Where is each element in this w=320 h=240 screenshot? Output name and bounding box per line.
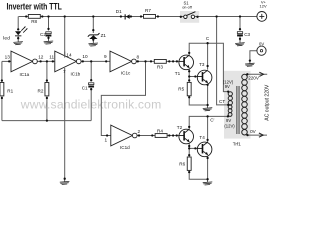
svg-text:R1: R1 — [7, 89, 13, 94]
wire R5 bottom to ground junction — [189, 96, 207, 105]
gate IC1b — [55, 51, 81, 72]
svg-text:8: 8 — [137, 54, 140, 59]
svg-text:T2: T2 — [177, 125, 183, 130]
resistor R8 — [28, 15, 40, 19]
junction dot pin7 bus ground — [64, 178, 66, 180]
wire T4 emitter — [207, 156, 209, 179]
terminal 0V — [257, 46, 266, 55]
transformer Trf1 core — [236, 86, 240, 134]
svg-text:C2: C2 — [40, 32, 46, 37]
svg-text:12V: 12V — [260, 3, 267, 8]
resistor R2 — [45, 83, 49, 96]
wire CT drop from rail — [217, 17, 229, 105]
wire R2 drop — [46, 61, 48, 82]
wire V+ rail right segment — [195, 16, 257, 18]
junction dots C3 — [239, 28, 241, 40]
wire IC1a output to IC1b input — [37, 60, 55, 62]
svg-text:14: 14 — [66, 52, 72, 57]
svg-text:C3: C3 — [244, 32, 250, 37]
wire R2 bottom to bus — [46, 97, 48, 121]
svg-text:2: 2 — [138, 129, 141, 134]
resistor R1 — [0, 83, 4, 96]
svg-text:www.sandielektronik.com: www.sandielektronik.com — [20, 98, 162, 112]
gate IC1d — [111, 125, 137, 146]
svg-text:IC1d: IC1d — [120, 145, 130, 150]
wire T4 base — [189, 147, 197, 149]
transistor T4 — [197, 142, 212, 157]
junction dots C2 — [47, 28, 49, 39]
capacitor C1 — [89, 83, 94, 88]
wire secondary top output — [247, 73, 267, 75]
transistor T1 — [179, 55, 194, 70]
gate IC1c — [110, 51, 136, 72]
switch S1 shaded panel — [180, 11, 199, 23]
svg-text:7: 7 — [63, 69, 66, 74]
svg-text:9: 9 — [104, 54, 107, 59]
transistor T2 — [179, 129, 194, 144]
wire feedback IC1c out to IC1d in — [101, 61, 145, 135]
svg-text:0V: 0V — [259, 42, 264, 47]
wire T3 collector — [207, 43, 209, 69]
svg-text:12: 12 — [38, 55, 44, 60]
wire R1 drop — [1, 61, 3, 82]
wire R1 bottom to bus — [1, 97, 3, 121]
transformer primary winding lower — [228, 105, 232, 116]
svg-text:IC1c: IC1c — [121, 71, 131, 76]
svg-text:R7: R7 — [145, 8, 151, 13]
ground under T3 emitter — [203, 105, 213, 111]
LED D symbol — [15, 26, 28, 36]
wire secondary bottom output — [248, 134, 268, 136]
wire V+ rail left segment — [19, 16, 184, 18]
wire Z1 branch — [92, 17, 94, 34]
ground under pin7 bus — [60, 179, 70, 185]
ground under C3 — [235, 40, 245, 46]
wire C3 to ground — [239, 36, 241, 41]
svg-text:Inverter with TTL: Inverter with TTL — [7, 1, 62, 11]
svg-text:R6: R6 — [179, 162, 185, 167]
wire IC1 pin7 to ground — [64, 68, 66, 179]
junction dots gate row 2 — [106, 134, 178, 136]
wire IC1b output to IC1c input — [81, 60, 110, 62]
svg-text:R5: R5 — [178, 87, 184, 92]
svg-text:C1: C1 — [82, 85, 88, 90]
wire LED branch — [17, 17, 19, 31]
wire C2 to ground — [48, 37, 50, 40]
switch S1 — [184, 12, 196, 19]
svg-text:0V: 0V — [250, 129, 257, 134]
wire Z1 to ground — [92, 39, 94, 42]
wire C3 branch — [239, 17, 241, 31]
svg-text:1: 1 — [105, 138, 108, 143]
arrow secondary top output — [259, 72, 263, 76]
gate IC1a — [11, 51, 37, 72]
svg-text:T4: T4 — [199, 135, 205, 140]
svg-text:led: led — [3, 35, 10, 41]
wire T3 base — [189, 76, 197, 78]
junction dots rail — [25, 15, 241, 18]
svg-text:C': C' — [210, 117, 214, 122]
transformer primary winding upper — [228, 92, 232, 105]
svg-text:CT: CT — [219, 99, 225, 104]
terminal V+ — [257, 12, 267, 22]
svg-text:R3: R3 — [157, 64, 163, 69]
junction dots LED branch — [17, 28, 19, 39]
svg-text:IC1a: IC1a — [20, 72, 30, 77]
junction dots Z1 — [92, 29, 94, 41]
wire IC1c output to T1 base — [136, 60, 179, 62]
svg-text:R8: R8 — [31, 19, 37, 24]
node C-prime wire T2/T4 collectors to primary bottom — [189, 116, 228, 129]
svg-text:Trf1: Trf1 — [233, 142, 241, 147]
wire T1 emitter to T3 base junction — [188, 68, 190, 77]
svg-text:11: 11 — [49, 55, 54, 60]
wire IC1d output to T2 base — [137, 135, 179, 137]
wire R6 bottom to ground junction — [189, 171, 207, 180]
svg-text:D1: D1 — [116, 9, 122, 14]
wire ground bus — [2, 120, 91, 122]
junction dots R1 R2 C1 bus — [1, 79, 93, 122]
resistor R3 — [154, 60, 166, 64]
transformer secondary winding — [242, 74, 248, 135]
svg-text:9V: 9V — [225, 84, 230, 89]
ground under T4 emitter — [203, 179, 213, 185]
svg-text:AC output 220V: AC output 220V — [264, 84, 270, 121]
junction dots gate row 1 — [8, 60, 178, 62]
svg-text:9V: 9V — [226, 118, 231, 123]
capacitor C2 — [46, 32, 51, 37]
wire pin14 inside gate — [64, 52, 66, 58]
ground under 0V wire — [245, 61, 255, 67]
svg-text:(12V): (12V) — [224, 123, 235, 128]
wire IC1a input — [2, 60, 11, 62]
resistor R6 — [187, 157, 191, 170]
svg-text:10: 10 — [82, 54, 88, 59]
wire T2 emitter to T4 base junction — [188, 142, 190, 148]
svg-text:on-off: on-off — [182, 6, 193, 10]
ground under C2 — [44, 38, 54, 44]
transistor T3 — [197, 70, 212, 85]
zener diode Z1 — [88, 33, 100, 39]
ground under LED — [13, 39, 23, 45]
wire C1 bottom to bus — [90, 88, 92, 121]
svg-text:220V: 220V — [248, 75, 260, 80]
junction dots T2 T4 column — [188, 115, 229, 180]
svg-text:T1: T1 — [175, 71, 181, 76]
resistor R4 — [155, 134, 167, 138]
wire T4 collector — [207, 116, 209, 142]
wire 0V terminal to ground — [250, 51, 257, 61]
wire LED to ground — [17, 36, 19, 39]
junction dots transformer — [227, 59, 251, 136]
svg-text:13: 13 — [5, 54, 11, 59]
svg-text:R4: R4 — [157, 128, 163, 133]
diode D1 — [125, 14, 130, 19]
ground under Z1 — [88, 40, 98, 46]
svg-text:IC1b: IC1b — [71, 71, 81, 76]
junction dots T1 T3 column — [188, 42, 209, 106]
svg-text:T3: T3 — [199, 62, 205, 67]
arrow secondary bottom output — [259, 133, 263, 137]
wire R5 drop — [188, 77, 190, 83]
node C wire T1/T3 collectors to primary top — [189, 43, 228, 91]
resistor R5 — [187, 82, 191, 95]
svg-text:R2: R2 — [38, 89, 44, 94]
transformer shaded panel — [224, 71, 251, 139]
wire IC1 pin14 branch — [64, 17, 66, 58]
wire R6 drop — [188, 148, 190, 157]
capacitor C3 — [237, 32, 242, 37]
resistor R7 — [144, 15, 156, 19]
svg-text:Z1: Z1 — [101, 33, 107, 38]
wire C2 branch — [48, 17, 50, 31]
wire T3 emitter — [207, 84, 209, 105]
wire C1 drop — [90, 61, 92, 81]
